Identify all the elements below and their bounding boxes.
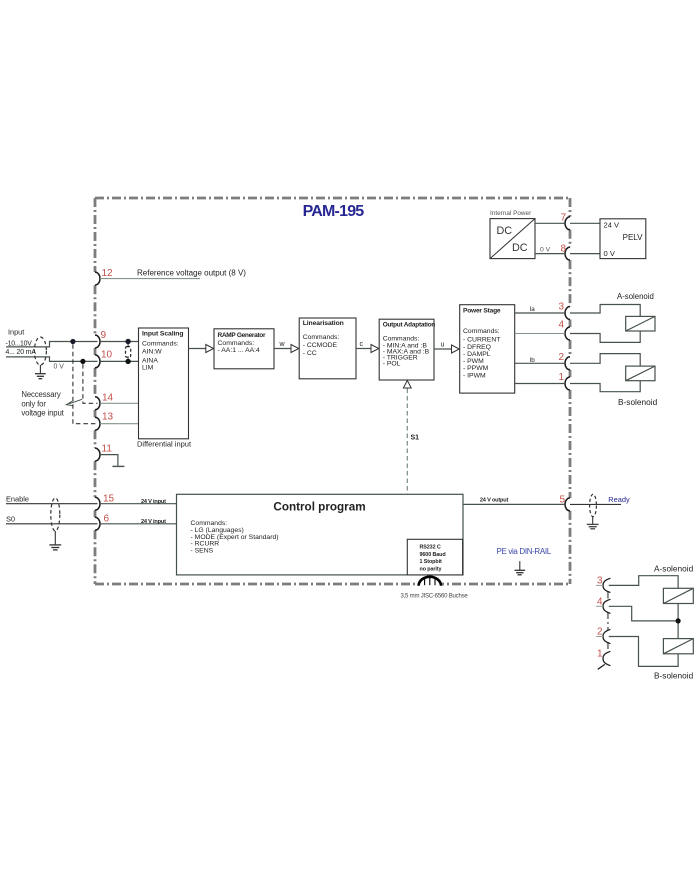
block Power Stage: [460, 305, 515, 393]
arrow S1 into Output Adaptation: [403, 380, 411, 388]
label A-solenoid top: [617, 292, 654, 301]
ground ready shield: [587, 524, 599, 528]
wire DC/DC 0V to pin 8: [535, 246, 565, 253]
svg-text:24 V input: 24 V input: [141, 519, 166, 525]
svg-text:Power Stage: Power Stage: [463, 308, 501, 315]
wire Power Stage to pin 2, label Ib: [515, 357, 565, 364]
svg-text:DC: DC: [497, 225, 513, 237]
block RS232: [407, 539, 462, 575]
svg-text:Commands:: Commands:: [463, 328, 500, 335]
label B-solenoid: [618, 397, 658, 407]
enclosure dashed border bottom: [95, 583, 570, 586]
block 24V PELV: [600, 219, 646, 259]
svg-text:13: 13: [102, 412, 114, 423]
wire pin15 to Control program: [100, 499, 177, 505]
svg-text:24 V input: 24 V input: [141, 499, 166, 505]
block DC/DC converter: [490, 210, 535, 258]
svg-text:Control program: Control program: [273, 501, 365, 514]
svg-text:voltage input: voltage input: [21, 409, 64, 418]
svg-text:- DFREQ: - DFREQ: [463, 344, 491, 351]
node jumper lower dot: [125, 359, 130, 364]
wire Output Adaptation to Power Stage, label u: [434, 341, 459, 353]
label B-solenoid detail: [654, 671, 694, 681]
svg-text:AINA: AINA: [142, 357, 158, 364]
svg-text:14: 14: [102, 393, 114, 404]
svg-text:B-solenoid: B-solenoid: [618, 397, 658, 407]
wire S0 to pin 6: [6, 523, 98, 525]
dashed optional wire node9 to pin 13: [73, 344, 98, 424]
enclosure dashed border left: [94, 198, 97, 584]
label Ready: [608, 495, 630, 504]
wire input current (to pin 10): [6, 357, 98, 362]
svg-text:RAMP Generator: RAMP Generator: [218, 332, 266, 339]
pin 6: [95, 513, 110, 530]
svg-text:Neccessary: Neccessary: [21, 390, 60, 399]
svg-text:Internal Power: Internal Power: [490, 210, 532, 217]
wire reference voltage output: [100, 269, 246, 279]
svg-text:- AA:1 ... AA:4: - AA:1 ... AA:4: [218, 347, 261, 354]
svg-text:only for: only for: [21, 400, 46, 409]
svg-text:9600 Baud: 9600 Baud: [420, 552, 446, 558]
wire A bottom to junction: [677, 604, 679, 639]
svg-text:LIM: LIM: [142, 364, 154, 371]
pin 11: [95, 444, 112, 462]
ground enable shield: [49, 545, 61, 550]
block Input Scaling: [139, 328, 189, 439]
label PE via DIN-RAIL: [497, 547, 552, 556]
svg-text:Input: Input: [8, 328, 24, 337]
svg-text:- PPWM: - PPWM: [463, 365, 489, 372]
svg-text:Enable: Enable: [6, 495, 29, 504]
svg-text:2: 2: [597, 627, 603, 638]
svg-text:Input Scaling: Input Scaling: [142, 331, 183, 338]
label Enable: [6, 495, 29, 504]
wire detail pin3 to A-solenoid: [609, 576, 678, 589]
detail pin 4: [596, 597, 610, 614]
enclosure dashed border right: [569, 198, 572, 584]
wire DC/DC to pin 7: [535, 222, 565, 224]
svg-text:1 Stopbit: 1 Stopbit: [420, 559, 442, 565]
svg-text:S1: S1: [411, 435, 420, 442]
svg-text:- POL: - POL: [383, 361, 401, 368]
svg-text:PAM-195: PAM-195: [303, 203, 365, 220]
pin 14: [95, 393, 114, 410]
block Linearisation: [299, 318, 356, 379]
svg-text:24 V: 24 V: [604, 221, 621, 230]
wire pin 5 Ready: [570, 503, 621, 505]
note arrow pointer: [66, 399, 82, 405]
pin 3: [558, 302, 570, 320]
wire pin 8 to PELV box: [570, 253, 600, 255]
wire pin11 to internal ground: [100, 455, 118, 466]
svg-text:24 V output: 24 V output: [480, 498, 509, 504]
pin 12: [95, 268, 113, 285]
svg-text:-10...10V: -10...10V: [6, 340, 33, 347]
svg-text:- IPWM: - IPWM: [463, 373, 486, 380]
wire pin14 to Input Scaling: [100, 402, 139, 404]
svg-text:12: 12: [102, 268, 114, 279]
shield ellipse enable: [51, 498, 60, 545]
svg-text:- CURRENT: - CURRENT: [463, 336, 500, 343]
svg-text:7: 7: [560, 213, 566, 224]
svg-text:Ib: Ib: [530, 357, 536, 364]
svg-text:- CCMODE: - CCMODE: [303, 342, 338, 349]
RS232 socket dome: [419, 577, 441, 586]
wire Power Stage to pin 1: [515, 383, 565, 385]
svg-text:4: 4: [558, 320, 564, 331]
svg-text:DC: DC: [512, 242, 528, 254]
svg-text:6: 6: [104, 513, 110, 524]
svg-text:1: 1: [597, 649, 603, 660]
solenoid A detail coil box: [663, 588, 693, 603]
dashed optional wire node10 to pin 14: [83, 364, 98, 403]
svg-text:w: w: [279, 341, 286, 348]
svg-text:15: 15: [103, 494, 115, 505]
wire Enable to pin 15: [6, 503, 98, 505]
pin 2: [558, 352, 570, 370]
svg-text:8: 8: [560, 243, 566, 254]
wire Power Stage to pin 3, label Ia: [515, 306, 565, 313]
svg-text:11: 11: [102, 444, 113, 455]
svg-text:1: 1: [558, 372, 564, 383]
detail pin 3: [596, 576, 610, 593]
svg-text:AIN:W: AIN:W: [142, 349, 162, 356]
detail connector dashes: [607, 592, 609, 653]
pin 15: [95, 494, 115, 511]
wire pin 7 to PELV box: [570, 222, 600, 224]
pin 13: [95, 412, 114, 431]
detail pin 1: [597, 649, 610, 670]
node on wire 9: [70, 339, 75, 344]
wire loop B-solenoid: [570, 354, 640, 392]
svg-text:B-solenoid: B-solenoid: [654, 671, 694, 681]
label S0: [6, 514, 15, 523]
svg-text:0 V: 0 V: [540, 246, 551, 253]
svg-text:3: 3: [558, 302, 564, 313]
svg-text:A-solenoid: A-solenoid: [617, 292, 654, 301]
jumper dashed bridge: [126, 344, 131, 359]
wire pin6 to Control program: [100, 519, 177, 525]
svg-text:Commands:: Commands:: [218, 340, 255, 347]
ground PE: [515, 561, 526, 575]
svg-text:0 V: 0 V: [54, 364, 65, 371]
ground internal (pin 11): [112, 465, 124, 467]
svg-text:c: c: [360, 341, 364, 348]
svg-text:2: 2: [558, 352, 564, 363]
svg-text:Reference voltage output (8 V): Reference voltage output (8 V): [137, 269, 246, 278]
svg-text:u: u: [441, 341, 445, 348]
wire detail pin4 to junction: [609, 606, 678, 621]
block Control program: [177, 494, 464, 575]
svg-text:0 V: 0 V: [604, 249, 616, 258]
svg-text:Output Adaptation: Output Adaptation: [383, 321, 436, 328]
svg-text:3: 3: [597, 576, 603, 587]
svg-text:Linearisation: Linearisation: [303, 320, 344, 327]
node junction: [676, 618, 681, 623]
wire pin13 to Input Scaling: [100, 423, 139, 425]
wire Power Stage to pin 4: [515, 333, 565, 335]
pin 8: [560, 243, 570, 260]
input labels: [6, 328, 65, 371]
wire Linearisation to Output Adaptation, label c: [356, 341, 379, 352]
svg-text:no parity: no parity: [420, 566, 442, 572]
svg-text:- CC: - CC: [303, 350, 317, 357]
shield ellipse input: [34, 337, 46, 373]
pin 9: [95, 330, 107, 348]
svg-text:Commands:: Commands:: [383, 335, 420, 342]
solenoid B detail coil box: [663, 639, 693, 654]
svg-text:4... 20 mA: 4... 20 mA: [6, 349, 37, 356]
svg-text:PE via DIN-RAIL: PE via DIN-RAIL: [497, 547, 552, 556]
enclosure dashed border top: [95, 197, 570, 200]
wire detail pin2 to B bottom: [609, 637, 678, 667]
svg-text:Commands:: Commands:: [303, 334, 340, 341]
svg-text:RS232 C: RS232 C: [420, 545, 441, 551]
svg-text:3,5 mm JISC-6560 Buchse: 3,5 mm JISC-6560 Buchse: [400, 594, 468, 600]
detail pin 2: [596, 627, 610, 644]
block Output Adaptation: [379, 319, 435, 380]
wire Control program to pin 5: [463, 498, 565, 505]
wire input voltage (to pin 9): [6, 342, 98, 347]
label differential input: [137, 439, 192, 448]
label A-solenoid detail: [654, 564, 694, 574]
svg-text:Ready: Ready: [608, 495, 630, 504]
svg-text:4: 4: [597, 597, 603, 608]
dashed wire S1: [407, 389, 419, 495]
block RAMP Generator: [214, 329, 274, 369]
svg-text:- PWM: - PWM: [463, 358, 484, 365]
pin 10: [95, 350, 113, 368]
wire pin9 to Input Scaling: [100, 341, 139, 343]
svg-text:10: 10: [101, 350, 113, 361]
pin 7: [560, 213, 570, 230]
node on wire 10: [80, 359, 85, 364]
pin 4: [558, 320, 570, 341]
wire RAMP to Linearisation, label w: [274, 341, 299, 352]
ground input shield: [35, 374, 46, 379]
pin 5: [559, 495, 570, 511]
wire pin10 to Input Scaling: [100, 360, 139, 362]
pin 1: [558, 372, 570, 390]
wire loop A-solenoid: [570, 305, 640, 343]
solenoid B coil box: [626, 366, 655, 381]
svg-text:Differential input: Differential input: [137, 439, 192, 448]
svg-text:A-solenoid: A-solenoid: [654, 564, 694, 574]
svg-text:PELV: PELV: [623, 233, 644, 242]
svg-text:- SENS: - SENS: [191, 547, 214, 554]
node jumper upper dot: [125, 339, 130, 344]
solenoid A coil box: [626, 316, 655, 331]
label RS232 socket: [400, 594, 468, 600]
svg-text:Commands:: Commands:: [142, 340, 179, 347]
svg-text:S0: S0: [6, 514, 15, 523]
svg-text:9: 9: [101, 330, 107, 341]
note text: [21, 390, 64, 418]
svg-text:Ia: Ia: [530, 306, 536, 313]
shield ellipse ready: [590, 494, 597, 524]
wire Input Scaling to RAMP: [189, 345, 214, 353]
svg-text:Commands:: Commands:: [191, 520, 228, 527]
